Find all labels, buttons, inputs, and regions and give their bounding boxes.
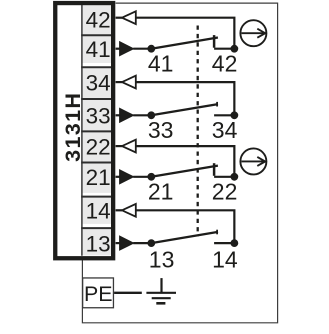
svg-text:3131H: 3131H xyxy=(60,92,85,162)
contact 21-22 NC moving blade (closed) xyxy=(151,166,218,177)
terminal block 3131H : cell column left border xyxy=(81,4,83,256)
node : junction dot at 21 xyxy=(147,173,155,181)
positive-opening symbol (circle with arrow) for 21-22 xyxy=(240,148,266,174)
node label 21 xyxy=(148,178,174,204)
wire : PE lead xyxy=(114,292,142,294)
node : junction dot at 33 xyxy=(147,111,155,119)
wire : terminal 34 stub xyxy=(116,81,122,83)
svg-text:22: 22 xyxy=(212,178,238,204)
wire : dashed mechanical linkage line xyxy=(197,26,199,237)
node label 34 xyxy=(212,117,238,143)
wire : contact 13-14 upper rail xyxy=(136,210,235,243)
wire : fixed contact leg 34 xyxy=(214,114,234,116)
node 14 open arrow (connector) xyxy=(122,204,136,217)
node : junction dot at 22 xyxy=(230,173,238,181)
svg-text:PE: PE xyxy=(84,282,113,306)
node 42 open arrow (connector) xyxy=(122,11,136,24)
node : junction dot at 42 xyxy=(230,45,238,53)
svg-text:13: 13 xyxy=(149,246,175,272)
node : junction dot at 41 xyxy=(147,45,155,53)
svg-text:42: 42 xyxy=(86,7,111,32)
node 21 filled arrow (connector) xyxy=(120,170,134,184)
wire : contact 33-34 upper rail xyxy=(136,82,235,115)
ground (earth) symbol xyxy=(146,278,176,303)
svg-text:14: 14 xyxy=(212,246,238,272)
svg-text:22: 22 xyxy=(86,134,111,159)
terminal 41 number xyxy=(86,37,111,62)
terminal 34 number xyxy=(86,70,111,95)
terminal block 3131H outline xyxy=(55,3,113,258)
svg-text:41: 41 xyxy=(86,37,111,62)
positive-opening symbol (circle with arrow) for 41-42 xyxy=(240,20,266,46)
node label 41 xyxy=(148,50,174,76)
wire : contact 21-22 upper rail xyxy=(136,146,235,177)
node label 42 xyxy=(212,50,238,76)
wire : terminal 13 lead xyxy=(133,242,151,244)
terminal 13 number xyxy=(86,231,111,256)
node 33 filled arrow (connector) xyxy=(120,108,134,122)
node : junction dot at 14 xyxy=(230,239,238,247)
node : junction dot at 13 xyxy=(147,239,155,247)
svg-text:14: 14 xyxy=(86,199,111,224)
terminal 42 number xyxy=(86,7,111,32)
wire : thin drawing frame (top/right/bottom/left-stub) xyxy=(82,3,277,323)
terminal block label 3131H xyxy=(60,92,85,162)
svg-text:21: 21 xyxy=(86,165,111,190)
node : junction dot at 34 xyxy=(230,111,238,119)
svg-text:33: 33 xyxy=(148,117,174,143)
wire : terminal 33 lead xyxy=(133,114,151,116)
wire : terminal 33 stub xyxy=(116,114,121,116)
node 34 open arrow (connector) xyxy=(122,76,136,89)
svg-text:33: 33 xyxy=(86,104,111,129)
contact 33-34 NO moving blade (open) xyxy=(151,102,218,115)
svg-text:41: 41 xyxy=(148,50,174,76)
contact 21-22 NC fixed post xyxy=(213,163,216,176)
wire : terminal 41 stub xyxy=(116,48,121,50)
node 13 filled arrow (connector) xyxy=(120,236,134,250)
wire : contact 41-42 upper rail xyxy=(136,18,235,49)
wire : terminal 13 stub xyxy=(116,242,121,244)
svg-text:13: 13 xyxy=(86,231,111,256)
terminal block 3131H : cell fills xyxy=(82,5,112,256)
node 41 filled arrow (connector) xyxy=(120,42,134,56)
svg-text:42: 42 xyxy=(212,50,238,76)
svg-text:34: 34 xyxy=(212,117,238,143)
wire : terminal 41 lead xyxy=(133,48,151,50)
wire : terminal 22 stub xyxy=(116,145,122,147)
contact 41-42 NC fixed post xyxy=(213,35,216,48)
wire : terminal 21 lead xyxy=(133,176,151,178)
wire : fixed contact leg 14 xyxy=(214,242,234,244)
wire : terminal 42 stub xyxy=(116,17,122,19)
node label 14 xyxy=(212,246,238,272)
wire : fixed contact leg 22 xyxy=(214,176,234,178)
terminal 14 number xyxy=(86,199,111,224)
terminal 22 number xyxy=(86,134,111,159)
node 22 open arrow (connector) xyxy=(122,140,136,153)
svg-text:21: 21 xyxy=(148,178,174,204)
terminal block 3131H : cell separator lines xyxy=(81,35,112,228)
wire : terminal 21 stub xyxy=(116,176,121,178)
contact 13-14 NO moving blade (open) xyxy=(151,230,218,243)
svg-text:34: 34 xyxy=(86,70,111,95)
terminal PE box xyxy=(83,278,114,308)
contact 41-42 NC moving blade (closed) xyxy=(151,38,218,49)
terminal 33 number xyxy=(86,104,111,129)
node label 33 xyxy=(148,117,174,143)
wire : fixed contact leg 42 xyxy=(214,48,234,50)
terminal 21 number xyxy=(86,165,111,190)
wire : terminal 14 stub xyxy=(116,209,122,211)
node label 13 xyxy=(149,246,175,272)
node label 22 xyxy=(212,178,238,204)
